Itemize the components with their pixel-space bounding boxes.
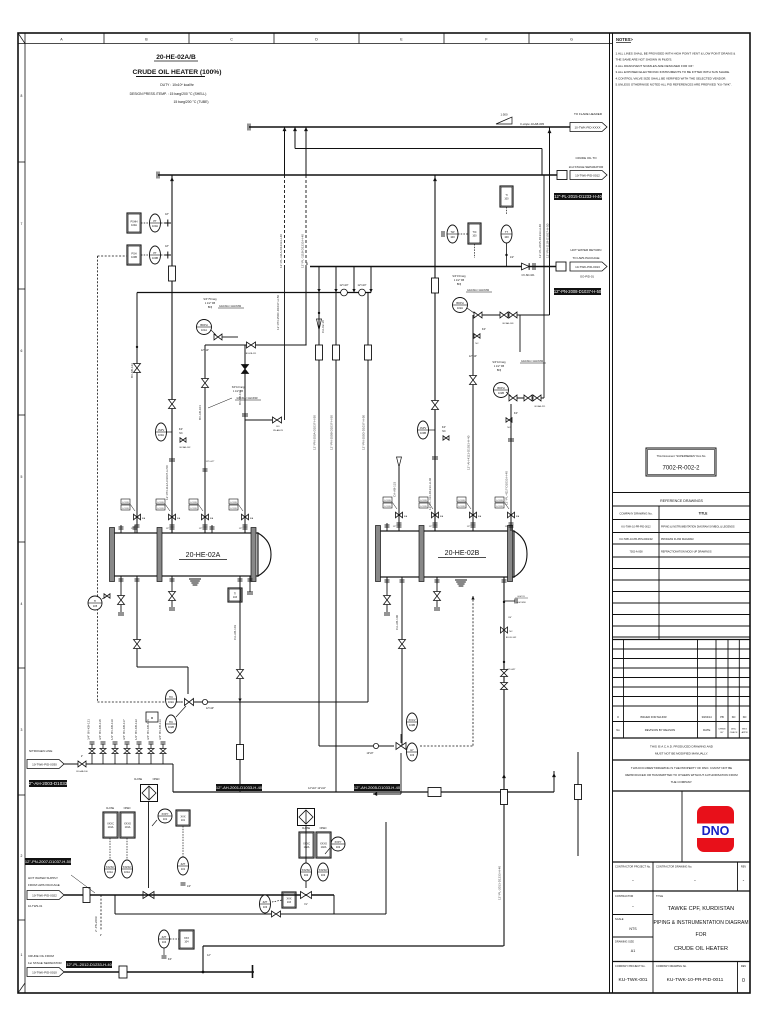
svg-text:REV: REV xyxy=(741,865,747,869)
svg-text:XXX: XXX xyxy=(180,815,185,818)
svg-text:JSPV: JSPV xyxy=(420,426,427,430)
svg-text:103: 103 xyxy=(263,905,268,909)
svg-text:BV-20-162: BV-20-162 xyxy=(506,637,517,639)
crude oil outlet header H3 xyxy=(158,174,558,176)
svg-text:REFERENCE DRAWINGS: REFERENCE DRAWINGS xyxy=(660,499,703,503)
svg-text:CLOSE: CLOSE xyxy=(134,778,143,781)
vessel A top nozzles xyxy=(120,525,122,533)
svg-text:CV-SD-101: CV-SD-101 xyxy=(521,273,535,277)
reference drawings table xyxy=(613,492,750,494)
svg-text:XXXC: XXXC xyxy=(303,842,310,845)
svg-text:TAWKE CPF, KURDISTAN: TAWKE CPF, KURDISTAN xyxy=(668,906,734,912)
svg-text:12"-PN-350C-D1037-H-50: 12"-PN-350C-D1037-H-50 xyxy=(276,295,280,330)
svg-text:8: 8 xyxy=(21,94,23,98)
svg-text:10-TWK-PID-0012: 10-TWK-PID-0012 xyxy=(575,173,600,177)
svg-text:1/2": 1/2" xyxy=(429,526,433,528)
svg-text:TIK: TIK xyxy=(169,695,173,699)
svg-text:102A: 102A xyxy=(321,846,327,849)
riser v306 xyxy=(305,127,307,175)
svg-text:LCO31: LCO31 xyxy=(384,500,391,502)
svg-text:1/2": 1/2" xyxy=(510,256,514,259)
heat exchanger 20-HE-02A xyxy=(111,533,258,576)
svg-text:TIK: TIK xyxy=(169,720,173,724)
svg-text:REFRACTIONATION MOCK-UP DRAWIN: REFRACTIONATION MOCK-UP DRAWINGS xyxy=(661,551,712,554)
svg-text:12"x10": 12"x10" xyxy=(206,707,214,710)
svg-text:1/2": 1/2" xyxy=(393,526,397,528)
svg-text:KU-TWK-10-PR-PFS-0001/02: KU-TWK-10-PR-PFS-0001/02 xyxy=(619,538,653,541)
svg-text:BO: BO xyxy=(276,426,279,428)
riser B v399 strainer xyxy=(397,457,402,467)
svg-text:BV-AB-104: BV-AB-104 xyxy=(198,405,202,420)
svg-text:102: 102 xyxy=(321,873,326,877)
svg-text:THE COMPANY.: THE COMPANY. xyxy=(671,780,693,784)
control valve FV 746 xyxy=(396,743,406,750)
svg-text:BV-AB-29: BV-AB-29 xyxy=(273,429,283,432)
svg-text:15 barg/200 °C (TUBE): 15 barg/200 °C (TUBE) xyxy=(173,100,208,104)
svg-text:1/2": 1/2" xyxy=(239,528,243,530)
svg-text:5.UNLESS OTHERWISE NOTED ALL P: 5.UNLESS OTHERWISE NOTED ALL PID REFEREN… xyxy=(616,83,732,87)
svg-text:1/2": 1/2" xyxy=(199,528,203,530)
TIK valves cluster xyxy=(166,690,177,708)
svg-text:LCO31: LCO31 xyxy=(190,508,197,510)
svg-text:18": 18" xyxy=(165,213,169,216)
svg-text:10-TWS-01: 10-TWS-01 xyxy=(28,904,43,908)
svg-text:DRAWING SIZE: DRAWING SIZE xyxy=(615,940,634,944)
svg-text:1/2": 1/2" xyxy=(166,528,170,530)
drain line w arrow xyxy=(373,793,401,795)
svg-text:PSHH: PSHH xyxy=(131,220,138,223)
svg-text:ZZT: ZZT xyxy=(162,935,167,939)
M box xyxy=(146,712,158,722)
svg-text:1/2" BV-KB-122: 1/2" BV-KB-122 xyxy=(134,719,138,740)
svg-text:CLOSE: CLOSE xyxy=(106,807,115,810)
svg-text:102A: 102A xyxy=(168,700,174,704)
svg-text:APPR: APPR xyxy=(742,731,748,734)
svg-text:PIPING & INSTRUMENTATION DIAGR: PIPING & INSTRUMENTATION DIAGRAM SYMBOL … xyxy=(661,526,735,529)
svg-text:103B: 103B xyxy=(420,431,426,435)
svg-text:MUST NOT BE MODIFIED MANUALLY.: MUST NOT BE MODIFIED MANUALLY. xyxy=(655,752,708,756)
svg-text:12"x10": 12"x10" xyxy=(340,283,349,287)
svg-text:S/P 10 barg: S/P 10 barg xyxy=(232,386,245,389)
riser v554 arrow xyxy=(553,771,555,792)
svg-text:12"-PL-4117-D1033-H-40: 12"-PL-4117-D1033-H-40 xyxy=(505,471,509,505)
svg-text:TI: TI xyxy=(505,194,508,197)
mid column instrument xyxy=(176,810,190,826)
svg-text:XXZSC: XXZSC xyxy=(302,868,311,872)
svg-text:12"-PL-111B-D1233-H-40: 12"-PL-111B-D1233-H-40 xyxy=(301,234,305,268)
svg-text:CHECK: CHECK xyxy=(730,732,738,734)
svg-text:HOT WATER SUPPLY: HOT WATER SUPPLY xyxy=(28,876,58,880)
svg-text:BDPH: BDPH xyxy=(456,301,463,305)
svg-text:6: 6 xyxy=(21,349,23,353)
flare vertical v550 xyxy=(549,127,551,315)
svg-text:12"-AH-2001-D1033-H-40: 12"-AH-2001-D1033-H-40 xyxy=(216,785,263,790)
main bottom cross line y792 xyxy=(173,791,554,793)
svg-text:3/4" BV-KB-118: 3/4" BV-KB-118 xyxy=(98,719,102,740)
svg-text:BV-AB-102: BV-AB-102 xyxy=(180,446,192,449)
svg-text:102B: 102B xyxy=(498,391,504,395)
svg-text:THE SAME ARE NOT SHOWN IN P&ID: THE SAME ARE NOT SHOWN IN P&ID'S. xyxy=(616,58,673,62)
svg-text:LCO31: LCO31 xyxy=(458,506,465,508)
svg-text:D: D xyxy=(315,38,318,42)
svg-text:12"x10" 12"x10": 12"x10" 12"x10" xyxy=(308,787,326,790)
svg-text:NC: NC xyxy=(179,432,183,435)
vessel A side instruments xyxy=(88,596,102,610)
svg-text:GGC31: GGC31 xyxy=(517,596,525,598)
svg-text:XXPY: XXPY xyxy=(162,812,169,816)
svg-text:101A: 101A xyxy=(108,826,114,829)
svg-text:PT: PT xyxy=(153,219,157,223)
DNO logo xyxy=(697,806,734,852)
svg-text:NC: NC xyxy=(442,430,446,433)
svg-text:S/P 15 barg: S/P 15 barg xyxy=(452,275,466,278)
svg-text:12"-PN-2007-D1037-H-50: 12"-PN-2007-D1037-H-50 xyxy=(25,859,72,864)
svg-text:1/2": 1/2" xyxy=(505,526,509,528)
svg-text:12"-PN-350D-D1037-H-50: 12"-PN-350D-D1037-H-50 xyxy=(362,415,366,450)
vessel B bottom piping xyxy=(386,577,388,612)
riser A v205 xyxy=(204,345,206,533)
instrument cluster left boxes xyxy=(127,213,141,233)
svg-text:LCO31: LCO31 xyxy=(420,506,427,508)
svg-text:CONTRACTOR: CONTRACTOR xyxy=(615,894,633,898)
svg-text:12"-PN-2008-D1037-H-50: 12"-PN-2008-D1037-H-50 xyxy=(554,289,602,294)
main riser B v435 xyxy=(434,175,436,531)
svg-text:DRWN: DRWN xyxy=(719,729,726,731)
svg-text:BV-AB-211: BV-AB-211 xyxy=(535,405,546,408)
svg-text:LCO31: LCO31 xyxy=(122,508,129,510)
svg-text:XXXC: XXXC xyxy=(107,822,114,825)
svg-text:KU-TWK-10-PR-PID-0012: KU-TWK-10-PR-PID-0012 xyxy=(621,526,651,529)
svg-text:2.ALL DRAIN/VENT NOZZLES ARE D: 2.ALL DRAIN/VENT NOZZLES ARE DESIGNED FO… xyxy=(616,64,695,68)
three hot water verticals xyxy=(318,293,320,747)
svg-text:3/4" BV-KB-117: 3/4" BV-KB-117 xyxy=(122,719,126,740)
svg-text:103: 103 xyxy=(410,753,415,757)
riser v386 xyxy=(385,822,387,914)
svg-text:20-HE-02B: 20-HE-02B xyxy=(445,550,480,557)
svg-text:1/2": 1/2" xyxy=(131,528,135,530)
svg-text:FOR: FOR xyxy=(696,932,707,938)
svg-text:GGC30W: GGC30W xyxy=(516,602,526,604)
svg-text:C: C xyxy=(230,38,233,42)
svg-text:12"-AH-2005-D1033-H-40: 12"-AH-2005-D1033-H-40 xyxy=(354,785,401,790)
svg-text:TI: TI xyxy=(234,592,237,595)
svg-text:LCO31: LCO31 xyxy=(496,500,503,502)
svg-text:REPRODUCED OR TRANSMITTED TO O: REPRODUCED OR TRANSMITTED TO OTHERS WITH… xyxy=(625,773,738,777)
svg-text:COMPANY DRAWING No.: COMPANY DRAWING No. xyxy=(619,512,652,516)
nitrogen manifold stubs xyxy=(91,744,93,764)
svg-text:REVISION BY REASON: REVISION BY REASON xyxy=(645,728,675,732)
label 12-PL-2015 xyxy=(554,193,602,200)
svg-text:103: 103 xyxy=(233,596,238,599)
svg-text:HY: HY xyxy=(410,748,414,752)
reducer check 344 xyxy=(341,289,348,296)
svg-text:S/P 75 barg: S/P 75 barg xyxy=(203,298,217,301)
svg-text:100: 100 xyxy=(504,235,509,239)
svg-text:DNO: DNO xyxy=(702,824,730,838)
svg-text:NTS: NTS xyxy=(629,927,637,931)
right SDV cluster xyxy=(298,809,315,826)
svg-text:100A: 100A xyxy=(131,224,137,227)
vertical v544 xyxy=(543,175,545,267)
svg-text:CONTRACTOR DRAWING No.: CONTRACTOR DRAWING No. xyxy=(656,865,692,869)
left SDV cluster xyxy=(141,785,158,802)
riser v284 xyxy=(284,127,286,175)
svg-text:CONTRACTOR PROJECT No.: CONTRACTOR PROJECT No. xyxy=(615,865,651,869)
line H2 jog xyxy=(295,148,542,150)
svg-text:REV: REV xyxy=(741,964,747,968)
svg-text:1/2" BV-KB-119: 1/2" BV-KB-119 xyxy=(110,719,114,740)
svg-text:3/4": 3/4" xyxy=(442,426,446,429)
svg-text:0: 0 xyxy=(742,978,745,984)
svg-text:KD: KD xyxy=(732,715,736,719)
svg-text:PB: PB xyxy=(720,715,724,719)
svg-text:OPEN: OPEN xyxy=(153,778,160,781)
vessel B drain hatch xyxy=(455,579,467,581)
svg-text:12"-PN-350B-D1037-H-50: 12"-PN-350B-D1037-H-50 xyxy=(330,415,334,450)
line y702 xyxy=(194,701,368,703)
svg-text:CLOSE: CLOSE xyxy=(302,827,311,830)
svg-text:BN]: BN] xyxy=(208,306,212,309)
svg-text:XXZSC: XXZSC xyxy=(106,865,115,869)
wire v295 xyxy=(294,127,296,149)
svg-text:LCO31: LCO31 xyxy=(458,500,465,502)
riser v578 xyxy=(577,752,579,856)
svg-text:LCO31: LCO31 xyxy=(157,502,164,504)
nitrogen drop v173 xyxy=(172,764,174,792)
svg-text:20-HE-02A/B: 20-HE-02A/B xyxy=(156,54,196,61)
svg-text:1st STAGE SEPARATOR: 1st STAGE SEPARATOR xyxy=(28,961,62,965)
svg-text:BV-AB-109: BV-AB-109 xyxy=(503,322,515,325)
riser A components xyxy=(169,400,176,409)
crude instruments xyxy=(159,930,170,948)
svg-text:CRUDE OIL HEATER: CRUDE OIL HEATER xyxy=(674,946,728,952)
main riser A v172 xyxy=(171,175,173,533)
valve pair BV-AB-29 xyxy=(273,417,282,423)
svg-text:CRUDE OIL HEATER (100%): CRUDE OIL HEATER (100%) xyxy=(133,69,222,76)
svg-text:BDPH: BDPH xyxy=(497,386,504,390)
svg-text:PIPING & INSTRUMENTATION DIAGR: PIPING & INSTRUMENTATION DIAGRAM xyxy=(653,920,748,926)
hot water return header node B xyxy=(310,266,557,268)
svg-text:LCO31: LCO31 xyxy=(190,502,197,504)
revision table xyxy=(613,648,750,650)
wire v544 to valve xyxy=(543,267,545,399)
svg-text:101A: 101A xyxy=(125,826,131,829)
svg-text:103A: 103A xyxy=(158,433,164,437)
svg-text:PT: PT xyxy=(153,251,157,255)
svg-text:12"-PN-111B-D1037-H-50: 12"-PN-111B-D1037-H-50 xyxy=(546,223,550,258)
svg-text:12"-PL-2015-D1233-H-40: 12"-PL-2015-D1233-H-40 xyxy=(554,194,602,199)
top ruler band xyxy=(18,43,612,45)
svg-text:TW: TW xyxy=(450,230,455,234)
svg-text:1/2": 1/2" xyxy=(467,526,471,528)
svg-text:XXPY: XXPY xyxy=(335,840,342,844)
svg-text:XXZSO: XXZSO xyxy=(319,868,328,872)
svg-text:30/04/14: 30/04/14 xyxy=(702,715,713,719)
svg-text:LCO31: LCO31 xyxy=(157,508,164,510)
left ruler band xyxy=(24,33,26,993)
svg-text:3: 3 xyxy=(21,728,23,732)
svg-text:12"-PN-350A-D1037-H-50: 12"-PN-350A-D1037-H-50 xyxy=(313,415,317,450)
svg-text:101: 101 xyxy=(181,819,186,822)
svg-text:XXX: XXX xyxy=(184,937,189,940)
svg-text:12"-PN-112A-D1037-H-50: 12"-PN-112A-D1037-H-50 xyxy=(165,465,169,500)
svg-text:101A: 101A xyxy=(124,870,130,874)
left FV valve on hws xyxy=(143,892,154,899)
svg-text:OPEN: OPEN xyxy=(124,807,131,810)
svg-text:BV-AB-110: BV-AB-110 xyxy=(238,390,242,405)
svg-text:CA-02-18: CA-02-18 xyxy=(321,320,325,333)
dashed signal to left border xyxy=(98,255,128,257)
svg-text:100A: 100A xyxy=(152,224,158,228)
drops from node B line xyxy=(318,267,320,293)
instrument cluster mid TW/TIC xyxy=(447,225,458,243)
svg-text:GGC31A / GGC33W: GGC31A / GGC33W xyxy=(521,360,544,363)
vessel A drain hatch xyxy=(189,578,201,580)
svg-text:A1: A1 xyxy=(631,949,635,953)
svg-text:12"-PL-2012-D1233-H-40: 12"-PL-2012-D1233-H-40 xyxy=(66,962,112,967)
svg-text:NC: NC xyxy=(509,631,513,633)
svg-text:BN]: BN] xyxy=(497,369,501,372)
svg-text:105: 105 xyxy=(93,604,98,608)
line y345 xyxy=(205,344,307,346)
svg-text:5: 5 xyxy=(21,475,23,479)
svg-text:10"x8": 10"x8" xyxy=(367,752,374,755)
svg-text:LCO31: LCO31 xyxy=(384,506,391,508)
svg-text:GO-PID-01: GO-PID-01 xyxy=(580,275,594,279)
line y946 xyxy=(203,945,504,947)
dashed drop v101 xyxy=(100,895,102,930)
svg-text:THIS DOCUMENT/DRAWING IS THE P: THIS DOCUMENT/DRAWING IS THE PROPERTY OF… xyxy=(631,766,732,770)
svg-text:1/2"x3/8": 1/2"x3/8" xyxy=(507,669,516,671)
svg-text:7: 7 xyxy=(21,222,23,226)
svg-text:TITLE: TITLE xyxy=(656,894,663,898)
heat exchanger 20-HE-02B xyxy=(377,531,514,577)
svg-text:12"-PL-2013-D1233-H-40: 12"-PL-2013-D1233-H-40 xyxy=(498,866,502,900)
svg-text:101: 101 xyxy=(163,817,168,821)
svg-text:KU-TWK-001: KU-TWK-001 xyxy=(618,977,647,983)
svg-text:PSH: PSH xyxy=(131,252,136,255)
svg-text:COMPANY PROJECT No.: COMPANY PROJECT No. xyxy=(615,964,646,968)
svg-text:7002-R-002-2: 7002-R-002-2 xyxy=(662,466,700,472)
svg-text:KD: KD xyxy=(743,715,747,719)
svg-text:1.ALL LINES SHALL BE PROVIDED: 1.ALL LINES SHALL BE PROVIDED WITH HIGH … xyxy=(616,52,736,56)
svg-text:XXXO: XXXO xyxy=(124,822,131,825)
svg-text:OPEN: OPEN xyxy=(320,827,327,830)
right column divider xyxy=(609,33,611,993)
svg-text:GGC31A / GGC33W: GGC31A / GGC33W xyxy=(467,289,490,292)
svg-text:ENG: ENG xyxy=(742,729,747,731)
title block xyxy=(652,891,654,962)
svg-text:CA-AB-123: CA-AB-123 xyxy=(393,481,397,497)
svg-text:18": 18" xyxy=(165,245,169,248)
svg-text:1: 1 xyxy=(21,953,23,957)
svg-text:104: 104 xyxy=(162,940,167,944)
svg-text:NC: NC xyxy=(475,343,479,345)
svg-text:KU-TWK-10-PR-PID-0011: KU-TWK-10-PR-PID-0011 xyxy=(667,977,724,983)
svg-text:103B: 103B xyxy=(409,723,415,727)
svg-text:ZZT: ZZT xyxy=(181,862,186,866)
svg-text:100: 100 xyxy=(450,235,455,239)
svg-text:FROM HWS PACKAGE: FROM HWS PACKAGE xyxy=(28,883,60,887)
svg-text:102B: 102B xyxy=(168,725,174,729)
svg-text:2nd STAGE SEPARATOR: 2nd STAGE SEPARATOR xyxy=(569,165,604,169)
svg-text:3/4" BV-KB-121: 3/4" BV-KB-121 xyxy=(87,719,91,740)
svg-text:102: 102 xyxy=(336,845,341,849)
svg-text:BV-KB-123: BV-KB-123 xyxy=(130,363,134,378)
svg-text:S/P 10 barg: S/P 10 barg xyxy=(492,361,506,364)
svg-text:100: 100 xyxy=(504,198,509,201)
svg-text:PROCESS FLOW DIAGRAM: PROCESS FLOW DIAGRAM xyxy=(661,538,694,541)
hot water subheader H5 xyxy=(137,292,371,294)
svg-text:1 1/2" FB: 1 1/2" FB xyxy=(205,302,216,305)
svg-text:102: 102 xyxy=(304,873,309,877)
svg-text:3.ALL EXPOSED ELECTRONIC INSTR: 3.ALL EXPOSED ELECTRONIC INSTRUMENTS TO … xyxy=(616,70,731,74)
nitrogen black label xyxy=(29,780,67,787)
svg-text:C-slope 10-AB-009: C-slope 10-AB-009 xyxy=(520,122,544,126)
svg-text:12"x10": 12"x10" xyxy=(201,349,209,352)
svg-text:12"x10": 12"x10" xyxy=(358,283,367,287)
riser A v137 xyxy=(136,293,138,534)
svg-text:TIC: TIC xyxy=(472,231,476,234)
svg-text:3/4": 3/4" xyxy=(482,328,486,331)
svg-text:FV: FV xyxy=(304,903,307,906)
flare header line H1 xyxy=(249,126,570,128)
svg-text:3/4": 3/4" xyxy=(514,412,518,415)
check valve CV-SD-101 xyxy=(522,263,530,270)
svg-text:G: G xyxy=(570,38,573,42)
svg-text:SCALE: SCALE xyxy=(615,917,624,921)
wire v306 node B feed xyxy=(305,267,307,346)
svg-text:HOT WATER RETURN: HOT WATER RETURN xyxy=(571,248,602,252)
svg-text:3/4": 3/4" xyxy=(179,428,183,431)
svg-text:12": 12" xyxy=(207,954,211,957)
svg-text:JSPV: JSPV xyxy=(158,428,165,432)
svg-text:2: 2 xyxy=(21,854,23,858)
svg-text:7002-A-008: 7002-A-008 xyxy=(629,551,643,554)
svg-text:COMPANY DRAWING No.: COMPANY DRAWING No. xyxy=(656,964,687,968)
svg-text:4.CONTROL VALVE SIZE SHALL BE: 4.CONTROL VALVE SIZE SHALL BE VERIFIED W… xyxy=(616,76,727,80)
svg-text:TT: TT xyxy=(505,230,509,234)
svg-text:BV-KB-111: BV-KB-111 xyxy=(246,353,257,355)
svg-text:LCO31: LCO31 xyxy=(230,502,237,504)
svg-text:3/4": 3/4" xyxy=(508,617,512,619)
svg-text:BDPH: BDPH xyxy=(200,323,207,327)
svg-text:RO-AB-100: RO-AB-100 xyxy=(76,770,88,773)
svg-text:12"-AH-4113-D1033-H-40: 12"-AH-4113-D1033-H-40 xyxy=(467,435,471,470)
svg-text:12"-PL-2015-D1233-H-40: 12"-PL-2015-D1233-H-40 xyxy=(538,224,542,258)
svg-text:XXXO: XXXO xyxy=(320,842,327,845)
svg-text:XXCV: XXCV xyxy=(408,718,415,722)
vessel B bottom nozzles xyxy=(386,577,388,584)
svg-text:NOTES>: NOTES> xyxy=(616,37,633,42)
svg-text:LCO31: LCO31 xyxy=(420,500,427,502)
svg-text:1/2": 1/2" xyxy=(187,885,191,888)
svg-text:100B: 100B xyxy=(131,256,137,259)
svg-text:20-HE-02A: 20-HE-02A xyxy=(186,552,221,559)
svg-text:DESIGN PRESS./TEMP. : 15 barg/: DESIGN PRESS./TEMP. : 15 barg/200 °C (SH… xyxy=(130,92,207,96)
vessel A nozzle clusters xyxy=(121,499,130,504)
svg-text:2": 2" xyxy=(100,934,102,937)
svg-text:1 1/2" FB: 1 1/2" FB xyxy=(454,279,465,282)
crude branch riser xyxy=(202,946,204,972)
svg-text:12"x10": 12"x10" xyxy=(469,355,477,358)
svg-text:10-TWK-PID-0013: 10-TWK-PID-0013 xyxy=(575,265,600,269)
svg-text:NITROGEN LINE: NITROGEN LINE xyxy=(29,749,52,753)
svg-text:4: 4 xyxy=(21,602,23,606)
svg-text:ZZT: ZZT xyxy=(263,900,268,904)
riser B v511 xyxy=(510,404,512,531)
riser v504 fittings xyxy=(503,601,505,603)
